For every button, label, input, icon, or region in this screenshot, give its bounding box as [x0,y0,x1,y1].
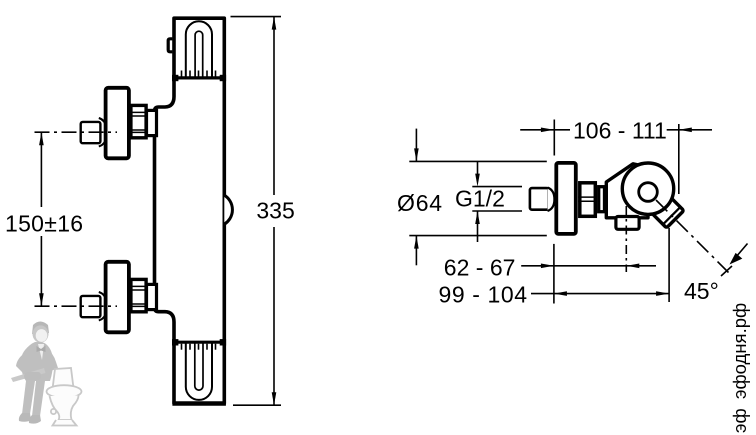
dimension 62-67 line [521,265,656,267]
valve inner circle [639,183,658,202]
nub centerline [625,206,627,272]
mixer body outline (front view) [155,18,225,403]
dimension G1/2 extension bottom [472,210,522,212]
svg-text:G1/2: G1/2 [455,185,505,211]
lower inlet nut [129,279,146,311]
side wall plate [556,163,576,234]
outlet 45° centerline [656,200,729,273]
bottom handle knurl ticks [182,344,216,350]
body side bump (temperature stop, front view) [224,195,232,224]
dimension 106-111 line right [667,129,712,131]
svg-text:335: 335 [256,198,294,224]
lower supply stub [81,296,101,317]
dimension 106-111 extension right [678,124,680,194]
dimension Ø64 arrows [415,129,417,266]
dimension 335 extension top [231,16,282,18]
top handle side tab [168,39,172,52]
dimension G1/2 arrows [477,161,479,242]
upper supply dome (behind escutcheon) [99,118,107,146]
watermark plumber figure [11,322,58,424]
dimension 106-111 line left [520,129,570,131]
upper inlet nut [129,105,146,137]
svg-text:эф: эф [729,408,750,433]
svg-text:150±16: 150±16 [5,211,83,237]
dimension 106-111 arrows [541,128,554,133]
svg-text:62 - 67: 62 - 67 [444,254,516,280]
lower centerline [35,305,118,307]
dimension 335 arrows [272,17,277,30]
45° leader arrow [730,244,748,265]
top handle knurl ticks [182,71,216,77]
svg-text:45°: 45° [684,278,719,304]
upper centerline [35,131,118,133]
outlet nozzle at 45° [648,192,684,228]
dimension 150±16 line [40,132,42,306]
watermark toilet [47,368,82,426]
top handle grip (inverted U) [186,21,212,77]
dimension 62-67 / 99-104 extension left [553,244,555,304]
dimension 150±16 arrows [39,132,44,145]
bottom port nub [616,217,639,230]
lower escutcheon plate [106,262,129,333]
side nut [578,183,597,217]
svg-text:106 - 111: 106 - 111 [573,118,667,144]
upper inlet collar [147,110,157,135]
side collar [599,187,605,212]
upper supply stub [81,122,101,143]
lower supply dome (behind escutcheon) [99,292,107,320]
lower inlet collar [147,284,157,309]
dimension 99-104 extension right [668,228,670,302]
dimension Ø64 extension bottom [409,235,547,237]
valve body block [606,164,648,218]
dimension 335 line [273,17,275,406]
dimension 62-67 arrows [541,264,554,269]
45° end tick [721,266,732,276]
dimension G1/2 extension top [472,186,522,188]
top handle bottom line [172,75,226,81]
dimension 335 extension bottom [233,404,281,406]
svg-text:Ø64: Ø64 [397,190,443,216]
valve body circle [622,163,673,214]
bottom handle grip (U) [186,343,212,400]
svg-text:99 - 104: 99 - 104 [439,282,528,308]
dimension Ø64 extension top [409,160,547,162]
svg-text:эфодня.рф: эфодня.рф [729,303,750,399]
side supply dome [548,188,555,211]
upper escutcheon plate [106,88,129,159]
dimension 99-104 arrows [554,291,567,296]
dimension 106-111 extension left [553,120,555,156]
dimension 99-104 line [531,293,669,295]
side supply stub [530,188,549,210]
mixer bottom edge (thick) [172,401,226,405]
bottom handle top line [172,339,226,345]
